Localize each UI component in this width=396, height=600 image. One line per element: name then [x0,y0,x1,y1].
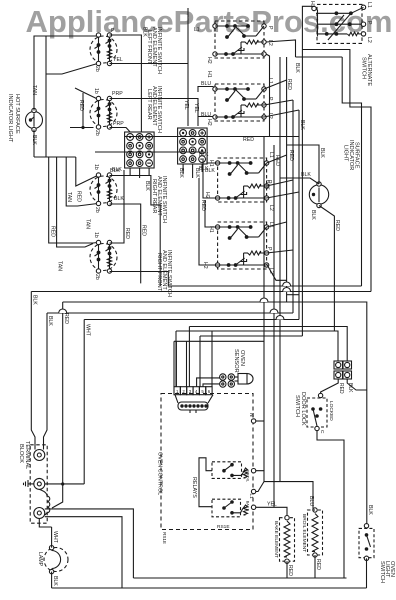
wire l2 u2 right [264,110,299,117]
svg-text:BLK: BLK [47,316,53,326]
wire bus x75 [76,157,98,186]
infinite switch right front [90,240,117,273]
svg-text:RED: RED [124,228,130,239]
wire u4 h1 feed [205,200,218,227]
connector plug dots [175,395,213,413]
wire busL blk2 down [44,313,48,450]
wire bus L5 y319 [84,319,299,321]
infinite switch right rear [90,173,117,206]
bake element [280,516,295,564]
wire u3 h1 feed [207,158,218,163]
svg-text:PRP: PRP [112,91,123,97]
wire term bot right2 [45,517,122,588]
svg-text:BLK: BLK [367,505,373,515]
svg-text:RED: RED [140,225,146,236]
wire bake bottom [286,561,288,578]
terminal oven box L1 [251,489,255,493]
svg-text:BLK: BLK [301,172,311,178]
svg-text:YEL: YEL [183,100,189,110]
svg-text:INDICATOR LIGHT: INDICATOR LIGHT [7,94,13,143]
wire broil top fix [313,509,315,511]
connector block left [125,132,155,168]
svg-text:P: P [266,247,272,251]
wire hop 1 [283,282,291,286]
wire sw2 prp right [110,99,199,127]
wire bus x56 [57,157,93,247]
wire sw2 prp bot right [110,128,131,133]
svg-text:RIGHT FRONT: RIGHT FRONT [156,253,162,292]
wire N terminal [251,419,255,423]
wire riser 188 [187,8,189,126]
wire u3 h2 feed [203,160,218,198]
wire sw2 red drop [82,93,84,128]
wire bus L3 y302 [63,302,367,526]
wire term bot right1 [45,509,134,578]
wire lamp top [51,527,53,548]
svg-text:BLK: BLK [199,152,209,158]
wire p u3 right [267,180,293,186]
wire sil top [287,145,319,184]
svg-text:L2: L2 [267,40,273,46]
svg-text:1b: 1b [93,164,99,170]
wire bus x66 [66,157,97,206]
wire sw2 2b row [70,127,94,129]
svg-text:YEL: YEL [267,502,277,508]
wire alt stair A [302,50,371,292]
wire blockL stubs [129,168,131,176]
svg-text:RED: RED [76,191,82,202]
wire hop 2 [283,288,291,292]
label oven light switch [379,561,395,583]
surface unit switch 2 [213,84,266,121]
svg-text:TAN: TAN [66,192,72,202]
wire p u4 right [267,250,293,253]
wire alt stair B [342,57,361,286]
svg-text:RED: RED [315,559,321,570]
door lock connectors [334,361,352,379]
wire term to lamp [39,519,51,528]
svg-text:RED: RED [287,565,293,576]
svg-text:OVEN CONTROL: OVEN CONTROL [157,452,163,495]
svg-text:SWITCH: SWITCH [361,57,367,79]
terminal oven box bake [251,505,255,509]
svg-text:BLK: BLK [347,383,353,393]
label infinite switch right rear [151,176,167,223]
infinite switch left front [90,33,117,66]
terminal oven box broil [251,469,255,473]
wire vbus 286 [286,57,288,302]
wire strip feeds [175,341,177,386]
wire red sw4 riser [110,170,125,243]
wire ols bottom [366,558,368,588]
surface unit switch 3 [215,158,268,202]
svg-text:BLK: BLK [294,63,300,73]
label infinite switch left front [146,27,162,74]
svg-text:RIGHT REAR: RIGHT REAR [151,179,157,213]
svg-text:H2: H2 [206,57,212,64]
svg-text:RED: RED [288,150,294,161]
relay bake [212,499,248,517]
svg-text:L2: L2 [268,205,274,211]
svg-text:BLK: BLK [264,180,270,190]
wire blu jog1 [198,87,215,93]
svg-text:2b: 2b [94,130,100,136]
wire busL blk1 down [31,292,35,450]
wire busL red down [52,302,63,508]
junction sw2 [81,126,84,129]
wire l2 u4 right [267,264,287,280]
svg-text:BLK: BLK [114,196,124,202]
connector block right [178,128,208,164]
svg-text:L1: L1 [194,27,200,33]
surface indicator light [309,182,328,208]
junction red [61,482,64,485]
svg-text:BLK: BLK [142,27,148,37]
svg-text:BLU: BLU [201,112,211,118]
oven sensor connectors [220,374,235,387]
wire u1 p right [266,40,296,57]
svg-text:RED: RED [286,79,292,90]
wire sw2 1b feed [75,88,98,99]
svg-text:C: C [319,430,325,434]
label oven sensor [233,349,245,373]
wire vbus 280 [279,57,281,482]
wire blockR stubs [182,164,184,174]
wire sw3 blk bot [110,204,141,283]
svg-text:RED: RED [50,226,56,237]
wire bus x46 [45,36,47,157]
wire strip riser 212 [211,331,213,387]
hot surface indicator light [26,108,43,131]
wire sw1 2b left [46,64,98,75]
wire bus L7 y331 [176,331,338,361]
svg-text:BLK: BLK [110,168,120,174]
label door lock switch [294,392,306,426]
wire vbus 299 [298,110,300,320]
wire vbus 274 [273,145,275,507]
svg-text:BLU: BLU [308,496,314,506]
svg-text:SWITCH: SWITCH [294,395,300,417]
svg-text:RED: RED [243,137,254,143]
wire strip riser 200 [199,336,201,387]
wire p u2 right [264,100,293,105]
wire strip feed l2 [175,331,177,387]
svg-text:1b: 1b [93,232,99,238]
wire elbow 294 [287,294,299,296]
connector strip P1 [174,387,212,395]
svg-text:H1: H1 [206,71,212,78]
label surface indicator light [343,140,360,170]
wire bus y588 [52,587,367,589]
svg-text:RED: RED [274,155,280,166]
svg-text:L2: L2 [366,37,372,43]
ground symbol [24,480,34,487]
svg-text:LOCKED: LOCKED [328,401,334,421]
wire dl drops [321,379,339,394]
svg-text:YEL: YEL [193,103,199,113]
svg-text:RED: RED [334,220,340,231]
svg-text:H2: H2 [206,119,212,126]
coil wire term [39,489,50,515]
wire sil blk link [280,178,319,184]
label infinite switch left rear [146,86,162,133]
door lock switch [307,393,327,430]
broil element [308,508,323,557]
wire bus L4 y313 [47,312,293,314]
svg-text:RED: RED [338,383,344,394]
wire blu jog2 [198,117,215,120]
oven sensor probe [235,374,254,385]
svg-text:BROIL: BROIL [246,470,251,483]
svg-text:RED: RED [78,100,84,111]
svg-text:L1: L1 [249,494,254,500]
svg-text:BROIL ELEMENT: BROIL ELEMENT [301,514,307,552]
wire l2 u1 right [266,54,270,137]
wire sw3 blk right [110,176,161,287]
wire sensor feed2 [203,384,220,387]
wire sensor feed1 [197,378,220,387]
svg-text:PRP: PRP [113,121,124,127]
oven lamp [44,546,68,574]
svg-text:LEFT REAR: LEFT REAR [146,89,152,120]
label alternate switch [361,54,373,86]
wire relay1 out [256,471,313,510]
svg-text:RS1E: RS1E [162,532,167,544]
svg-text:YEL: YEL [113,57,123,63]
wire vbus 264 [263,137,265,471]
wire bus L6 y326 [189,327,347,362]
svg-text:P: P [111,28,115,34]
wire relayL1 out [256,482,264,492]
terminal block [30,445,47,523]
wire alt h1 bus [302,6,314,336]
wire l1 u3 right [267,155,287,163]
wire h57 bus [296,56,343,58]
wire bus L8 y336 [200,335,302,337]
wire lamp bottom [51,572,53,588]
wire h157 b [34,156,76,158]
label infinite switch right front [156,250,172,297]
svg-text:2b: 2b [94,207,100,213]
wire relay2 out [256,507,287,517]
wire x141 bus [110,35,142,132]
wire broil bottom [314,555,316,578]
svg-text:BLK: BLK [319,148,325,158]
wire bus L1 y286 [110,272,362,287]
label terminal block [18,441,30,469]
wire relay feeder S [199,458,212,507]
svg-text:BLK: BLK [310,210,316,220]
label hot surface indicator light [7,94,20,143]
wire red bus under blocks [125,136,299,138]
wire strip feed l [173,341,175,386]
svg-text:BAKE ELEMENT: BAKE ELEMENT [273,521,279,558]
oven control box [161,394,253,530]
svg-text:TAN: TAN [57,261,63,271]
wire dl bottom [317,431,344,578]
svg-text:RELAYS: RELAYS [191,477,197,498]
wire hop 4 [276,316,284,320]
wire l2 u3 right [267,192,299,198]
svg-text:WHT: WHT [52,531,58,544]
svg-text:LIGHT: LIGHT [343,145,349,162]
svg-text:BLK: BLK [199,166,209,172]
svg-text:LAMP: LAMP [37,552,43,567]
svg-text:TAN: TAN [85,219,91,229]
wire vbus 293 [292,100,294,313]
wire u4 h2 feed [199,178,218,265]
svg-text:WHT: WHT [85,324,91,337]
svg-text:2b: 2b [94,66,100,72]
wire hop 6 [260,298,268,302]
wire hop 5 [59,309,67,313]
wire busL wht down [83,320,85,485]
svg-text:SWITCH: SWITCH [379,561,385,583]
wire blk indicator down [33,130,35,158]
wire sil bottom [319,206,334,332]
svg-text:L1: L1 [366,2,372,8]
svg-text:N: N [248,413,254,417]
infinite switch left rear [90,96,117,129]
svg-text:SENSOR: SENSOR [233,349,239,373]
alternate switch [312,4,366,43]
oven light switch [359,524,374,561]
wire bus x48 [49,157,98,243]
svg-text:HOT SURFACE: HOT SURFACE [14,94,20,134]
wire bus L9 y341 [174,340,264,342]
wire bus y578 [133,577,346,579]
wire yel sw1 [110,63,189,65]
wire l1 u4 right [267,222,287,227]
wire bus L2 y291 [31,291,371,293]
svg-text:RED: RED [63,313,69,324]
svg-text:BAKE: BAKE [246,501,251,512]
svg-text:BLK: BLK [52,576,58,586]
wire hop 3 [270,309,278,313]
wire tan indicator to sw1 [34,36,98,111]
surface unit switch 1 [213,21,266,58]
svg-text:BLOCK: BLOCK [18,444,24,463]
svg-text:RS1E: RS1E [217,524,230,530]
wire term mid right [45,483,84,485]
surface unit switch 4 [215,222,268,269]
svg-text:BLK: BLK [32,295,38,305]
wire l1 u2 right [264,80,287,89]
svg-text:L1: L1 [268,152,274,158]
svg-text:P: P [267,26,273,30]
svg-text:P: P [366,21,372,25]
relay broil [212,462,248,479]
wire cross blocks y152 [95,151,204,153]
svg-text:2b: 2b [94,274,100,280]
svg-text:BLK: BLK [144,181,150,191]
svg-text:1b: 1b [93,88,99,94]
